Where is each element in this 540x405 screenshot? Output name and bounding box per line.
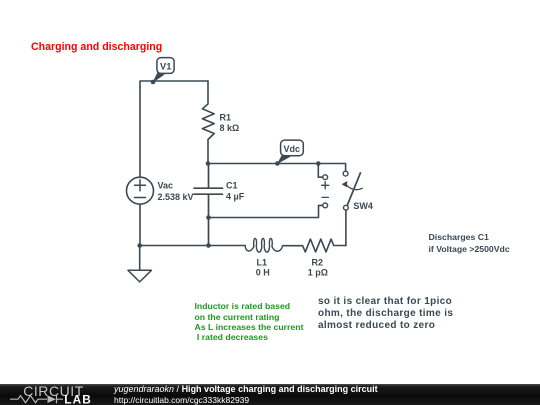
svg-text:R1: R1 (220, 112, 232, 122)
svg-text:1 pΩ: 1 pΩ (308, 268, 328, 278)
svg-text:8 kΩ: 8 kΩ (220, 123, 240, 133)
svg-text:Vdc: Vdc (284, 144, 301, 154)
svg-text:4 µF: 4 µF (226, 192, 245, 202)
svg-text:SW4: SW4 (353, 201, 373, 211)
svg-text:LAB: LAB (64, 392, 92, 405)
svg-text:Vac: Vac (158, 181, 174, 191)
svg-text:0 H: 0 H (256, 268, 270, 278)
svg-text:V1: V1 (160, 62, 171, 72)
svg-text:R2: R2 (312, 257, 324, 267)
svg-text:C1: C1 (226, 180, 238, 190)
svg-text:2.538 kV: 2.538 kV (158, 192, 194, 202)
svg-text:L1: L1 (257, 257, 268, 267)
